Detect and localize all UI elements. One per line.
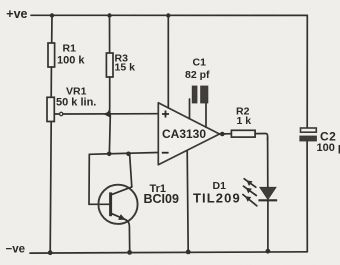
- capacitor C1 (compensation): [190, 86, 208, 127]
- wire: -ve bottom rail: [30, 252, 307, 253]
- node: R3 / inverting input junction: [107, 152, 112, 157]
- wire: op-amp V- pin to -ve rail: [187, 151, 188, 252]
- wire: VR1 wiper to op-amp non-inverting input: [63, 113, 158, 115]
- wire: inverting input line: [89, 153, 158, 155]
- node: output junction: [220, 132, 225, 137]
- node: collector / inverting input junction: [126, 152, 131, 157]
- node: rail / R3 junction: [107, 13, 111, 17]
- capacitor C2: [300, 128, 317, 141]
- op-amp U1 CA3130: [158, 103, 219, 165]
- resistor R2: [231, 130, 267, 140]
- wire: +ve rail to op-amp V+ pin (top edge): [167, 16, 169, 108]
- node: VR1 / -ve rail junction: [48, 250, 53, 255]
- LED D1: [258, 187, 277, 200]
- node: emitter / -ve rail junction: [127, 250, 132, 255]
- potentiometer VR1: [47, 97, 63, 121]
- node: LED / -ve rail junction: [266, 249, 271, 254]
- wire: feedback from inverting node to Tr1 base: [89, 154, 109, 204]
- node: op-amp V- / -ve rail junction: [186, 250, 191, 255]
- wire: LED cathode to -ve rail: [267, 201, 269, 251]
- wiper arrowhead at R3 line junction: [104, 111, 111, 118]
- node: rail / op-amp V+ junction: [166, 13, 170, 17]
- wire: top rail right edge down to C2: [306, 15, 308, 128]
- resistor R1: [48, 16, 55, 98]
- LED light arrows: [243, 179, 257, 206]
- wire: emitter down to -ve rail: [126, 220, 130, 253]
- wire: collector up to inverting node: [130, 154, 132, 187]
- wire: C2 to bottom rail: [306, 141, 308, 252]
- transistor Tr1 BC109: [98, 185, 137, 224]
- wire: +ve top rail: [31, 14, 307, 16]
- wire: op-amp output: [220, 133, 232, 135]
- resistor R3: [106, 16, 113, 153]
- wire: R2 to LED anode: [267, 138, 269, 187]
- node: rail / R1 junction: [50, 13, 54, 17]
- wire: VR1 bottom to -ve rail: [50, 122, 51, 253]
